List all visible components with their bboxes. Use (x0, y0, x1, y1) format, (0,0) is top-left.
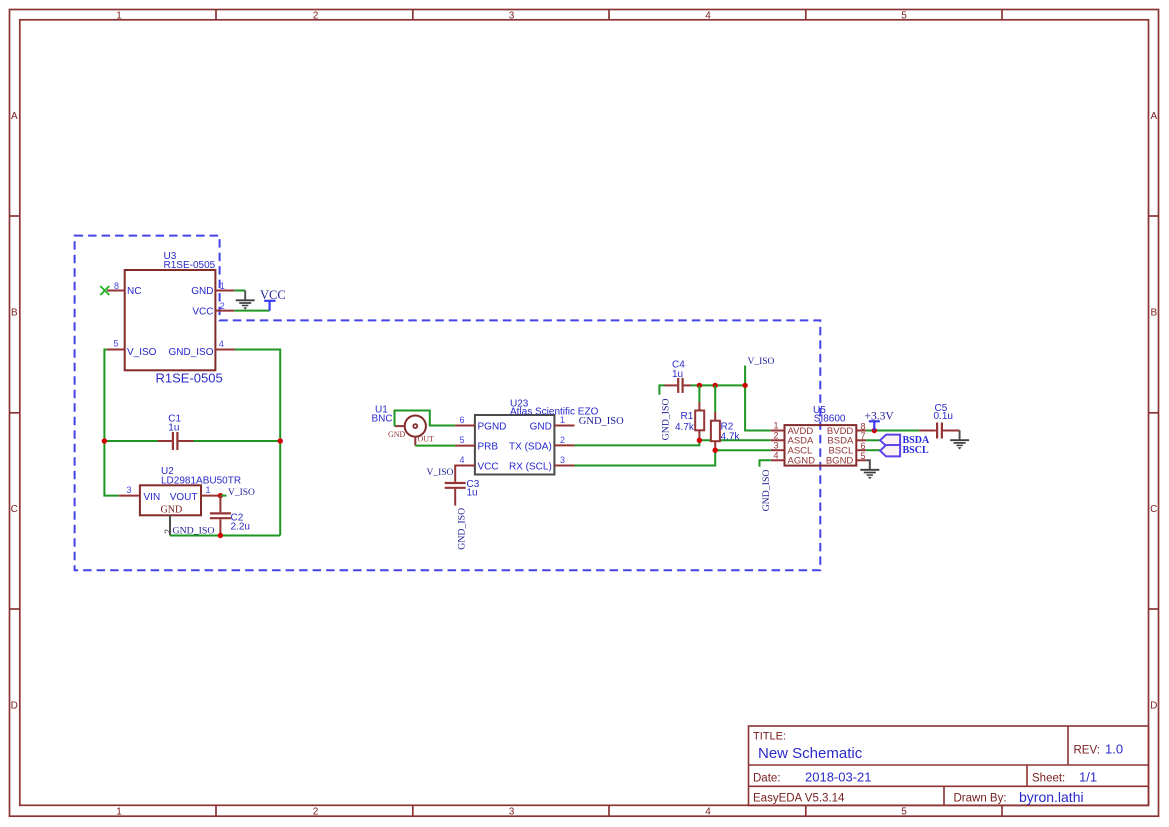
svg-text:5: 5 (901, 10, 907, 21)
capacitor C1 (158, 432, 194, 450)
svg-text:AGND: AGND (788, 456, 816, 467)
svg-text:4: 4 (705, 807, 711, 818)
svg-text:TX (SDA): TX (SDA) (509, 442, 552, 453)
svg-text:V_ISO: V_ISO (748, 357, 775, 367)
R1 value label (675, 411, 695, 433)
U3 pin 1 GND (215, 290, 234, 292)
title block (749, 726, 1149, 806)
wire VOUT to V_ISO label (220, 495, 226, 497)
svg-text:BNC: BNC (372, 414, 393, 425)
U23 pin 5 PRB (455, 445, 475, 447)
svg-text:C: C (1150, 504, 1157, 515)
wire GND_ISO right rail (235, 350, 280, 536)
svg-text:Sheet:: Sheet: (1032, 773, 1065, 785)
capacitor C3 (445, 483, 466, 506)
svg-text:VIN: VIN (144, 492, 161, 503)
junction left of C1 (102, 438, 107, 443)
svg-text:New Schematic: New Schematic (758, 745, 863, 762)
svg-text:1: 1 (220, 281, 225, 291)
svg-text:3: 3 (509, 10, 515, 21)
U3 pin 4 GND_ISO (215, 349, 235, 351)
svg-text:D: D (11, 701, 18, 712)
svg-text:4: 4 (219, 339, 224, 349)
U23 refdes label (510, 399, 599, 418)
svg-text:NC: NC (127, 286, 141, 297)
svg-text:GND: GND (191, 286, 213, 297)
capacitor C2 (210, 496, 231, 536)
isolator U5 SI8600 (785, 425, 857, 466)
svg-text:5: 5 (901, 807, 907, 818)
junction right of C1 (278, 438, 283, 443)
svg-text:V_ISO: V_ISO (127, 347, 157, 358)
C4 value label (672, 360, 685, 381)
net port BSCL (880, 445, 900, 456)
svg-text:1u: 1u (467, 488, 478, 499)
capacitor C4 (659, 385, 664, 394)
svg-text:3: 3 (773, 440, 778, 450)
wire V_ISO stem to U5 AVDD (745, 366, 771, 431)
svg-text:BSCL: BSCL (903, 445, 929, 456)
+3.3V power flag (869, 421, 880, 430)
junction R2 bottom (713, 448, 718, 453)
ground symbol at U3 GND (236, 291, 255, 306)
svg-text:VCC: VCC (478, 462, 499, 473)
net port BSDA (880, 435, 900, 446)
svg-text:C: C (11, 504, 18, 515)
svg-text:4: 4 (773, 451, 778, 461)
U5 pin 2 ASDA (771, 439, 785, 441)
U3 pin 2 VCC (215, 310, 234, 312)
U5 pin 8 BVDD (856, 430, 866, 432)
junction C2 bottom (218, 533, 223, 538)
isolation boundary (dashed) (75, 236, 821, 571)
U2 pin 1 VOUT (201, 495, 221, 497)
svg-text:5: 5 (114, 338, 119, 348)
svg-text:1.0: 1.0 (1105, 742, 1123, 757)
svg-text:GND_ISO: GND_ISO (579, 416, 624, 427)
C3 value label (467, 479, 480, 499)
U1 OUT pin (414, 437, 416, 446)
wire BSCL to port (866, 449, 880, 451)
svg-text:1: 1 (116, 807, 122, 818)
wire TX(SDA) to R1/U5 (575, 440, 700, 445)
svg-text:Date:: Date: (753, 773, 781, 785)
junction at VOUT (218, 493, 223, 498)
wire C1 left (104, 440, 157, 442)
svg-text:2: 2 (773, 431, 778, 441)
svg-text:GND_ISO: GND_ISO (168, 347, 213, 358)
svg-text:7: 7 (861, 431, 866, 441)
svg-text:R1: R1 (681, 411, 694, 422)
svg-text:PRB: PRB (478, 442, 499, 453)
svg-text:V_ISO: V_ISO (228, 488, 255, 498)
svg-text:GND_ISO: GND_ISO (456, 508, 467, 550)
svg-text:2: 2 (220, 301, 225, 311)
wire BGND to ground (866, 460, 870, 470)
svg-text:+3.3V: +3.3V (865, 410, 895, 422)
svg-text:1: 1 (773, 421, 778, 431)
svg-text:1: 1 (560, 415, 565, 425)
svg-text:V_ISO: V_ISO (427, 468, 454, 478)
wire RX(SCL) to R2/U5 (575, 450, 716, 465)
regulator U2 LD2981ABU50TR (140, 485, 201, 515)
svg-text:A: A (1150, 111, 1157, 122)
U23 pin 2 TX (SDA) (554, 444, 574, 446)
svg-text:8: 8 (114, 281, 119, 291)
svg-text:Drawn By:: Drawn By: (954, 793, 1007, 805)
svg-text:3: 3 (127, 485, 132, 495)
C5 value label (934, 403, 953, 422)
svg-text:GND: GND (388, 430, 406, 439)
svg-text:GND_ISO: GND_ISO (661, 398, 672, 440)
U5 pin 6 BSCL (856, 449, 866, 451)
svg-text:OUT: OUT (418, 435, 435, 444)
junction V_ISO (742, 383, 747, 388)
junction C4/R1 (697, 383, 702, 388)
svg-text:2.2u: 2.2u (231, 521, 250, 532)
wire V_ISO left rail (104, 350, 118, 496)
C2 value label (231, 512, 250, 532)
junction +3.3V (872, 428, 877, 433)
resistor R2 (714, 385, 716, 412)
wire AGND down (760, 460, 771, 467)
svg-text:2: 2 (313, 10, 319, 21)
svg-text:VCC: VCC (260, 288, 286, 302)
svg-text:2018-03-21: 2018-03-21 (805, 770, 872, 785)
U2 refdes label (161, 466, 241, 486)
svg-text:PGND: PGND (478, 422, 507, 433)
svg-text:GND_ISO: GND_ISO (761, 470, 772, 512)
U23 pin 6 PGND (455, 425, 475, 427)
svg-text:5: 5 (460, 435, 465, 445)
resistor R1 (698, 385, 700, 402)
wire C4 to V_ISO rail (691, 384, 745, 386)
U3 pin 8 NC (107, 290, 125, 292)
svg-text:R1SE-0505: R1SE-0505 (156, 371, 223, 386)
svg-text:GND: GND (530, 422, 552, 433)
U5 refdes label (813, 405, 846, 424)
svg-text:byron.lathi: byron.lathi (1019, 789, 1084, 805)
ground symbol right of C5 (950, 431, 969, 446)
U23 pin 1 GND (554, 425, 574, 427)
U2 pin 2 (gray) (169, 515, 171, 535)
R2 value label (721, 421, 741, 442)
svg-text:1: 1 (206, 485, 211, 495)
svg-text:1: 1 (116, 10, 122, 21)
wire BNC GND to PGND (395, 411, 456, 427)
U5 pin 7 BSDA (856, 439, 866, 441)
wire BVDD to C5 (866, 430, 919, 432)
ground symbol at BGND (860, 470, 879, 475)
wire C1 right (194, 440, 281, 442)
svg-text:BGND: BGND (826, 456, 854, 467)
svg-text:VOUT: VOUT (170, 492, 198, 503)
svg-text:R2: R2 (721, 421, 734, 432)
svg-text:2: 2 (313, 807, 319, 818)
svg-text:1/1: 1/1 (1079, 770, 1097, 785)
U5 pin 5 BGND (856, 459, 866, 461)
dc-dc converter U3 R1SE-0505 (125, 270, 216, 370)
no-connect flag X (100, 286, 109, 295)
U23 pin 3 RX (SCL) (554, 465, 574, 467)
U5 pin 3 ASCL (771, 449, 785, 451)
U2 pin 3 VIN (119, 495, 140, 497)
svg-text:REV:: REV: (1074, 745, 1100, 757)
svg-text:1u: 1u (168, 422, 179, 433)
svg-text:SI8600: SI8600 (814, 414, 846, 425)
svg-text:3: 3 (560, 455, 565, 465)
wire U3 VCC pin to VCC flag (234, 310, 269, 312)
svg-text:6: 6 (861, 441, 866, 451)
svg-text:4: 4 (460, 455, 465, 465)
svg-text:EasyEDA V5.3.14: EasyEDA V5.3.14 (753, 793, 845, 805)
svg-text:4.7k: 4.7k (675, 422, 695, 433)
junction R1 bottom (697, 438, 702, 443)
U5 pin 1 AVDD (771, 430, 785, 432)
U3 refdes label (164, 251, 216, 271)
wire BNC OUT to PRB (415, 445, 455, 447)
VCC power flag (264, 301, 275, 311)
svg-text:LD2981ABU50TR: LD2981ABU50TR (161, 475, 241, 486)
svg-text:0.1u: 0.1u (934, 411, 953, 422)
C1 value label (168, 414, 181, 434)
IC U23 Atlas Scientific EZO (475, 415, 555, 475)
wire U23 VCC to C3 (455, 466, 475, 482)
svg-text:8: 8 (861, 421, 866, 431)
svg-text:B: B (1150, 308, 1157, 319)
U1 GND pin (395, 425, 405, 427)
BNC connector U1 (405, 416, 426, 437)
svg-text:4.7k: 4.7k (721, 432, 741, 443)
svg-text:1u: 1u (672, 369, 683, 380)
U23 pin 4 VCC (455, 465, 475, 467)
U3 pin 5 V_ISO (107, 349, 125, 351)
wire U3 GND to ground (234, 290, 245, 292)
svg-text:4: 4 (705, 10, 711, 21)
svg-text:3: 3 (509, 807, 515, 818)
svg-text:5: 5 (861, 451, 866, 461)
U1 refdes label (372, 405, 393, 425)
svg-text:A: A (11, 111, 18, 122)
svg-text:B: B (11, 308, 18, 319)
svg-text:TITLE:: TITLE: (753, 731, 786, 743)
junction C4/R2 (713, 383, 718, 388)
U5 pin 4 AGND (771, 459, 785, 461)
capacitor C5 (919, 423, 959, 439)
svg-text:D: D (1150, 701, 1157, 712)
svg-text:RX (SCL): RX (SCL) (509, 462, 552, 473)
wire BSDA to port (866, 439, 880, 441)
svg-text:GND: GND (161, 504, 183, 515)
wire U2 GND to rail (170, 535, 280, 537)
svg-text:2: 2 (163, 529, 173, 534)
svg-text:R1SE-0505: R1SE-0505 (164, 260, 216, 271)
svg-text:6: 6 (460, 415, 465, 425)
svg-text:VCC: VCC (192, 307, 213, 318)
svg-text:2: 2 (560, 435, 565, 445)
